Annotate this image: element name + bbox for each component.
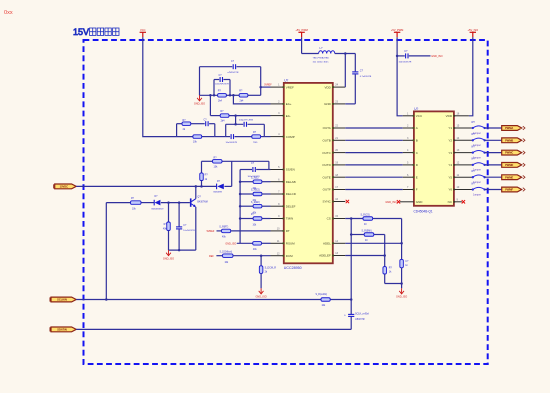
svg-text:COMP: COMP [286,135,295,139]
port flag PWMA [502,126,525,131]
svg-text:15VDC: 15VDC [60,185,68,189]
svg-text:Y2: Y2 [448,139,452,143]
wire jumper to port PWMD [485,164,502,166]
svg-text:GND: GND [324,102,332,106]
svg-text:n/50/X7R: n/50/X7R [355,319,365,321]
svg-text:TBD-PH2A3TBD: TBD-PH2A3TBD [313,56,330,59]
wire SDAT row to capacitor [76,300,351,330]
resistor R10 RT row with red net label [207,227,271,239]
svg-text:2k4: 2k4 [221,119,226,122]
capacitor C4 to GND_ISO [396,50,443,63]
ground GND_ISO divider [194,95,205,105]
svg-text:S_R(CS): S_R(CS) [361,214,370,216]
op-amp U1 UCC28950 body [284,83,333,263]
wire emitter bottom node [169,249,196,252]
svg-text:DCM: DCM [286,254,293,258]
power port +5V_PWM (U2 supply) [391,28,403,37]
diode D2 base series [152,196,165,211]
U2 GND pin no-ERC [385,200,414,204]
svg-text:OUTF: OUTF [323,188,331,192]
svg-text:GND_ISO: GND_ISO [431,55,442,58]
resistor R21 vertical on EMI branch [383,235,393,284]
port flag SCLKIN [50,297,76,302]
svg-text:ADELEF: ADELEF [319,254,331,258]
svg-text:PWMC: PWMC [505,151,513,155]
wire jumper to port PWMB [485,139,502,141]
svg-text:VCC: VCC [140,28,146,32]
resistor R22 vertical on CS branch [400,219,409,289]
svg-text:F: F [416,188,418,192]
resistor R13 box2 bottom [252,131,261,144]
svg-text:E: E [416,175,418,179]
jumper W1 [454,121,486,135]
RC network box2 wires [226,124,265,136]
capacitor C11 box1 top [204,119,209,127]
port flag PWMC [502,150,525,155]
port flag PWME [502,175,525,180]
svg-text:OUTD: OUTD [322,163,331,167]
port flag 15VDC input [54,184,76,189]
svg-text:400p/X7/+EMI: 400p/X7/+EMI [239,120,253,122]
svg-text:PWMD: PWMD [505,163,513,167]
resistor R19 CS series [361,214,373,226]
wire SCLK row with resistor [76,298,352,301]
svg-text:B4307NM: B4307NM [197,202,207,204]
svg-text:ADEL: ADEL [323,242,331,246]
resistor R7 row [240,190,270,203]
svg-text:OUTA: OUTA [323,126,331,130]
jumper W6 [454,182,486,196]
power port +5V_PWM (U1 supply) [295,28,307,37]
svg-text:EA-: EA- [286,114,291,118]
svg-text:OUTC: OUTC [322,151,331,155]
svg-text:OUTE: OUTE [322,175,330,179]
svg-text:Y3: Y3 [448,151,452,155]
inductor L1 [313,46,335,63]
resistor R20 EMI series [362,230,374,242]
svg-text:RSUM: RSUM [286,242,295,246]
ground GND_ISO CS branch [396,288,407,298]
svg-text:GND_ISO: GND_ISO [163,257,174,260]
wire rail B vertical [239,170,242,244]
jumper W2 [454,133,486,147]
wire jumper to port PWMA [485,127,502,129]
U2 right pins [446,112,460,204]
U2 Vdd pin wire [454,115,469,117]
resistor R23 refclk [316,293,331,307]
svg-text:5VREF: 5VREF [207,230,215,233]
wire CS row [345,217,401,220]
svg-text:SYNC: SYNC [322,200,331,204]
diode D1 on 15VDC row [214,181,224,193]
svg-text:+5V_PWM: +5V_PWM [295,28,307,32]
svg-text:GND_ISO: GND_ISO [194,103,205,106]
wire box2 to COMP pin [264,136,270,138]
svg-text:GND_ISO: GND_ISO [385,201,396,204]
wire jumper to port PWME [485,176,502,178]
svg-text:B4848W: B4848W [214,191,223,193]
junction dots divider [209,94,212,97]
svg-text:Y5: Y5 [448,175,452,179]
wire jumper to port PWMC [485,152,502,154]
svg-text:UCC28950: UCC28950 [284,266,302,270]
svg-text:PWMB: PWMB [505,138,513,142]
svg-text:n/NP0/X7R: n/NP0/X7R [228,72,239,74]
wire base net down to SCLK row [105,203,107,300]
svg-text:GND: GND [416,200,424,204]
transistor Q1 NPN [190,196,208,208]
svg-text:+5V_PWM: +5V_PWM [391,28,403,32]
resistor R2 divider [239,90,248,103]
RC network box1 wires [177,124,215,137]
svg-text:B: B [416,139,418,143]
svg-text:VDD: VDD [324,85,331,89]
svg-text:OUTB: OUTB [322,139,330,143]
U1 right pins with numbers [319,84,345,258]
wire VREF to divider [261,86,271,88]
svg-text:SCLK_refSel: SCLK_refSel [355,312,369,315]
capacitor C5 SS/EN [240,162,269,178]
svg-text:S_R(RT): S_R(RT) [219,227,228,229]
resistor R3 EA- series [220,110,229,122]
svg-text:PWMF: PWMF [505,188,513,192]
resistor R1 divider [218,90,227,103]
svg-text:S_R(EMI): S_R(EMI) [362,230,372,232]
svg-text:DELAB: DELAB [286,180,296,184]
wires OUTA-OUTF to U2 inputs [345,128,402,190]
wire EA+ tap from divider midpoint [233,95,270,104]
port flag SDATIN [50,327,76,332]
svg-text:PWME: PWME [505,175,513,179]
svg-text:10n/50/X7R: 10n/50/X7R [183,230,195,232]
svg-text:4.7uF/50TB: 4.7uF/50TB [360,76,372,78]
resistor R17 base series [131,198,142,211]
resistor R15 DCM row [209,252,271,265]
svg-text:GND_ISO: GND_ISO [396,296,407,299]
svg-text:A: A [416,126,418,130]
wire ADEL row [345,242,403,245]
svg-text:5VREF: 5VREF [264,85,272,87]
svg-text:S_R(E): S_R(E) [251,177,259,179]
svg-text:100n/50/X7R: 100n/50/X7R [399,61,412,63]
svg-text:REF: REF [209,255,214,258]
capacitor C13 box2 top [239,120,253,127]
port flag PWMB [502,138,525,143]
port flag PWMF [502,187,525,192]
svg-text:2k4: 2k4 [240,100,245,103]
wire divider bottom row [200,94,261,96]
wire jumper to port PWMF [485,189,502,191]
svg-text:VDD: VDD [446,114,453,118]
svg-text:TBD: TBD [253,142,258,144]
jumper W4 [454,158,486,172]
no-ERC cross SYNC pin [346,200,349,203]
wire SCLK vertical [350,219,352,300]
svg-text:SDATIN: SDATIN [57,328,67,332]
svg-text:S_R(EF): S_R(EF) [251,202,260,204]
svg-text:GND_ISO: GND_ISO [255,296,266,299]
wire ADELEF row [345,254,386,257]
wire VCC vertical drop [143,37,177,136]
wire +5V_ISO to U2 Vdd [469,37,473,116]
svg-text:10n/50/X7R: 10n/50/X7R [226,142,238,144]
capacitor C7 on SDAT riser [344,312,369,321]
resistor R16 S_DCM vertical to ground [259,256,276,289]
resistor R6 row [240,177,270,190]
svg-text:S_DCM(sel): S_DCM(sel) [220,252,233,254]
resistor R5 1k vertical [200,161,209,186]
wire 15VDC net row [76,161,232,187]
resistor R8 row [240,202,270,215]
ground GND_ISO below S_DCM [255,288,266,298]
capacitor C14 box2 bottom [226,134,238,144]
jumper W3 [454,145,486,159]
wire box1 to box2 [215,136,226,138]
wire row to SS/EN with corner [202,161,271,169]
svg-text:TMIN: TMIN [286,217,293,221]
power port +5V_ISO (U2 Vdd) [467,28,478,37]
power port VCC [140,28,146,37]
resistor R18 40k vertical [163,203,170,251]
wire EA- row [210,95,270,125]
dashed sheet border [84,40,488,364]
jumper W5 [454,170,486,184]
svg-text:S_R(refclk): S_R(refclk) [316,293,328,296]
svg-text:SS/EN: SS/EN [286,168,295,172]
wire collector up emitter down [195,186,197,250]
wire divider top rail [200,67,261,96]
buffer U2 CD4504B body [414,111,454,205]
capacitor C1 top rail [228,60,239,74]
svg-text:15V: 15V [73,27,89,37]
resistor R9 row [240,214,270,227]
svg-text:10n 100nn 300n: 10n 100nn 300n [313,61,330,63]
svg-text:EA+: EA+ [286,102,292,106]
resistor R14 RSUM row GND_ISO label [225,242,270,251]
svg-text:SCLKIN: SCLKIN [57,298,67,302]
svg-text:U?: U? [284,78,288,82]
svg-text:S_R(E2): S_R(E2) [251,190,260,192]
resistor R12 box1 bottom [193,135,202,144]
wire joining branch bottoms [385,282,403,285]
svg-text:100n/NP0/X7R: 100n/NP0/X7R [215,84,229,86]
svg-text:Y4: Y4 [448,163,452,167]
wire inductor to VDD node [335,52,356,87]
svg-text:B4848/4819: B4848/4819 [152,209,165,211]
svg-text:U?: U? [414,107,418,111]
svg-text:Y1: Y1 [448,126,452,130]
svg-text:DELEF: DELEF [286,204,296,208]
resistor R11 box1 top [182,119,191,131]
svg-text:2k4: 2k4 [218,100,223,103]
U2 left pins [403,112,424,204]
svg-text:Y6: Y6 [448,188,452,192]
ground GND_ISO emitter node [163,250,174,260]
svg-text:S_DCM_R: S_DCM_R [265,266,277,269]
svg-text:0xx: 0xx [4,10,13,16]
port flag PWMD [502,163,525,168]
wire transistor base row [106,201,190,204]
svg-text:DELCD: DELCD [286,192,297,196]
svg-text:VREF: VREF [286,85,294,89]
svg-text:GND_ISO: GND_ISO [225,243,236,246]
title 15V low-voltage (CJK) [73,27,119,37]
svg-text:Jumper: Jumper [473,193,481,196]
svg-text:PWMA: PWMA [505,126,513,130]
wire +5V to inductor [302,37,319,53]
svg-text:RT: RT [286,229,290,233]
U2 NC pin no-ERC [454,200,465,203]
capacitor C6 vertical [176,203,195,251]
svg-text:+5V_ISO: +5V_ISO [467,28,478,32]
svg-text:CD4504B-Q1: CD4504B-Q1 [414,209,433,213]
capacitor C2 branch box [214,74,230,95]
wire +5V to U2 Vcc [397,37,403,116]
U1 left pins with numbers [271,84,297,258]
wire EMI branch row [350,233,385,236]
capacitor C3 VDD decoupling [345,54,371,104]
resistor R4 10k [213,156,223,168]
svg-text:CS: CS [327,217,331,221]
svg-text:VCC: VCC [416,114,423,118]
